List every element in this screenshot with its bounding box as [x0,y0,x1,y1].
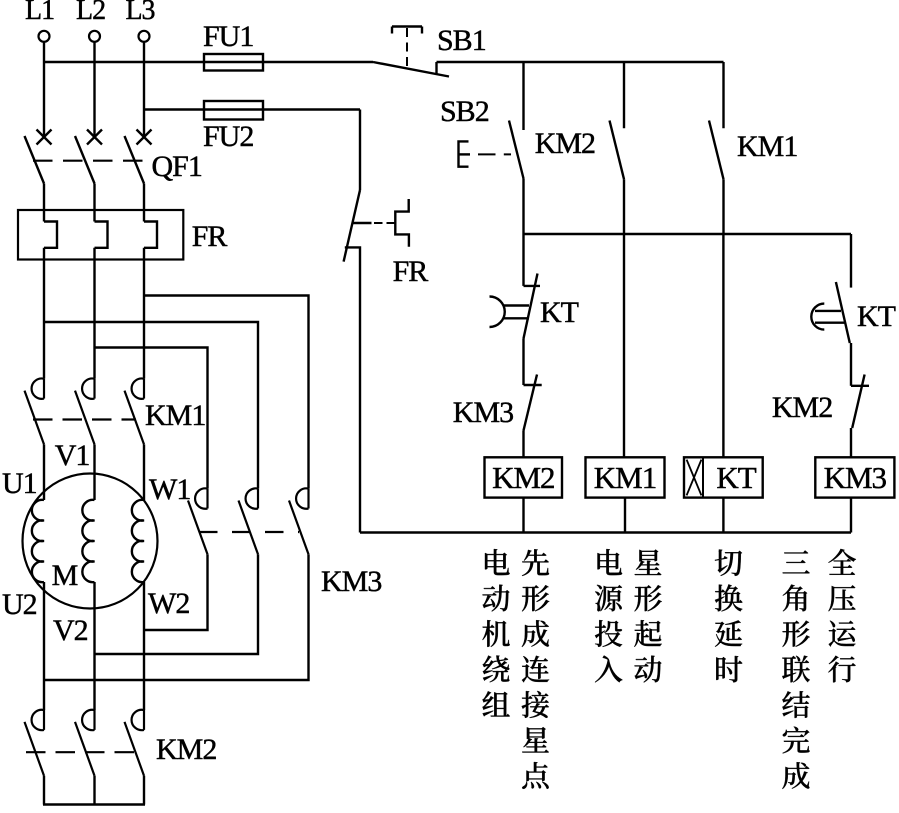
wire control bus2 [524,233,852,235]
note column dianYuanTouRu [595,549,622,682]
svg-text:FU1: FU1 [203,20,253,53]
motor M circle [23,474,158,609]
svg-text:KT: KT [716,460,756,495]
aux contact KM2 (NC interlock) [772,375,869,458]
svg-text:V2: V2 [53,614,88,647]
motor windings [32,500,144,582]
fuse FU1 [203,20,263,71]
aux contact KM3 (NC interlock) [453,375,542,458]
label V1 [55,439,90,472]
thermal relay FR heater box [18,210,227,260]
label W1 [149,473,190,506]
wire coil stubs to bus3 [524,498,852,533]
svg-text:V1: V1 [55,439,90,472]
timer contact KT left (NO delayed close) [490,234,579,385]
wire L1 drop [43,42,45,137]
svg-text:U1: U1 [2,467,37,500]
aux contact KM2 (NO self-hold) [535,62,624,234]
terminal L2 [76,0,105,42]
svg-text:FU2: FU2 [203,120,253,153]
wire L3 to FU2 [144,108,360,110]
svg-text:KM2: KM2 [492,460,554,495]
wire tap L1 to KM3 rail2 [44,322,258,488]
wire KM3 rail1 to W2 [144,554,208,630]
svg-text:L2: L2 [76,0,105,26]
wire FU2 rail down to FR contact [359,110,361,191]
svg-text:KM3: KM3 [453,396,513,429]
svg-text:KM1: KM1 [737,130,797,163]
svg-text:KT: KT [540,296,579,329]
svg-text:M: M [52,559,78,592]
note column qieHuanYanShi [715,550,743,683]
svg-text:L1: L1 [25,0,54,26]
pushbutton SB1 (stop, NC) [373,24,486,77]
label V2 [53,614,88,647]
svg-text:W2: W2 [148,587,189,620]
timer contact KT right (NC delayed open) [811,234,895,386]
wire top bus to FU1/SB1 [44,61,373,63]
svg-text:SB1: SB1 [437,24,486,57]
label U1 [2,467,37,500]
note column dianDongJiRaoZu [482,549,509,716]
wire control bus1 [437,61,724,63]
svg-text:KM1: KM1 [145,399,205,432]
svg-text:KT: KT [857,300,896,333]
coil KM1 [586,457,665,497]
label U2 [2,588,37,621]
svg-text:KM1: KM1 [594,460,656,495]
wire KM2 to star bus (3 lines) [44,776,144,805]
fuse FU2 [203,101,263,153]
wire star point bus [43,803,145,805]
svg-text:SB2: SB2 [440,95,489,128]
note column sanJiaoXingLianJieWanCheng [782,550,810,789]
svg-text:KM2: KM2 [156,733,216,766]
aux contact KM1 (NO) [709,62,797,234]
wire KT branch down [722,234,724,457]
note column xingXingQiDong [634,550,662,683]
pushbutton SB2 (start, NO) [440,62,524,234]
wire QF1 to FR (3 lines) [44,184,144,222]
svg-text:KM2: KM2 [772,391,832,424]
wire L2 drop [93,42,95,137]
note column xianXingChengLianJieXingDian [522,549,550,789]
label M [52,559,78,592]
svg-text:QF1: QF1 [152,150,202,183]
wire KM1 to motor (3 lines) [44,444,144,500]
svg-text:FR: FR [192,220,228,253]
wire FR to KM1 (3 lines) [44,248,144,379]
svg-text:W1: W1 [149,473,190,506]
label W2 [148,587,189,620]
svg-text:KM2: KM2 [535,127,595,160]
svg-text:L3: L3 [125,0,154,26]
wire L3 drop [143,42,145,137]
terminal L3 [125,0,154,42]
breaker QF1 [25,130,202,184]
wire KM3 rail2 to V2 [95,554,259,654]
thermal contact FR (NC) [344,190,429,533]
coil KM3 [815,457,894,497]
svg-text:KM3: KM3 [321,565,381,598]
contactor KM1 main contacts [25,378,206,444]
svg-text:U2: U2 [2,588,37,621]
svg-text:KM3: KM3 [824,460,887,495]
wire KM1 branch down [623,234,625,457]
wire tap L2 to KM3 rail1 [95,348,208,489]
wire tap L3 to KM3 rail3 [144,296,309,489]
note column quanYaYunXing [828,549,856,682]
coil KT (time relay) [684,457,763,497]
contactor KM3 contacts [188,488,381,598]
terminal L1 [25,0,54,42]
wire KM3 rail3 to U2 [44,554,309,680]
contactor KM2 main contacts [25,710,217,776]
svg-text:FR: FR [393,255,429,288]
coil KM2 [485,457,563,497]
wire motor to KM2 (3 lines) [44,582,144,710]
wire control bus3 [360,531,851,533]
